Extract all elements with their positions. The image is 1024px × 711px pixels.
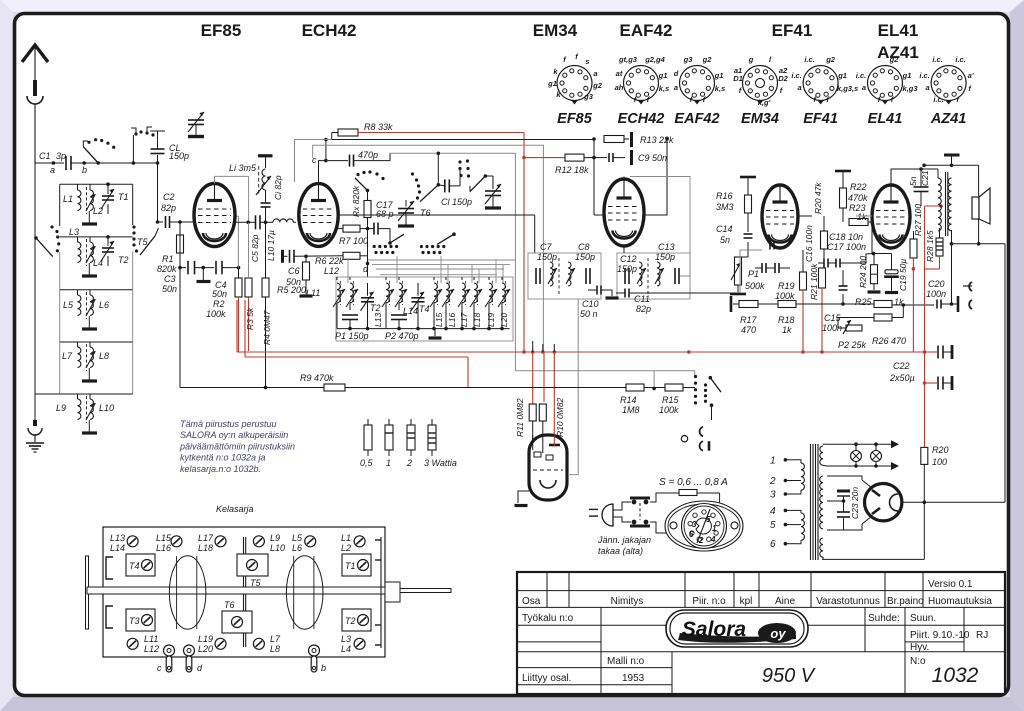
B+ node wire	[902, 244, 1005, 504]
svg-text:150p: 150p	[537, 252, 557, 262]
capacitor C18 C17	[818, 232, 866, 268]
capacitor C9 50n	[592, 139, 667, 215]
voltage selector socket	[665, 501, 743, 551]
trimmer box T4	[126, 554, 155, 576]
svg-text:C10: C10	[582, 299, 599, 309]
trimmer box T1	[342, 554, 371, 576]
label EM34	[533, 21, 578, 40]
svg-text:P1: P1	[748, 269, 759, 279]
svg-text:c: c	[157, 663, 162, 673]
svg-text:i.c.: i.c.	[791, 71, 801, 80]
capacitor C6 50n	[283, 250, 344, 287]
svg-text:Malli n:o: Malli n:o	[607, 656, 645, 667]
svg-text:D2: D2	[778, 74, 788, 83]
svg-text:EF41: EF41	[803, 111, 838, 127]
oscillator ground	[429, 329, 442, 338]
svg-text:a: a	[50, 165, 55, 175]
svg-text:C5 82p: C5 82p	[250, 234, 260, 262]
svg-text:Kelasarja: Kelasarja	[216, 504, 254, 514]
svg-text:5n: 5n	[720, 235, 730, 245]
svg-text:R11 0M82: R11 0M82	[515, 398, 525, 437]
svg-text:L10: L10	[99, 403, 114, 413]
transformer primary taps	[769, 455, 795, 550]
svg-text:Cl 150p: Cl 150p	[441, 197, 472, 207]
svg-text:L20: L20	[499, 313, 509, 327]
svg-text:g2: g2	[702, 55, 713, 64]
svg-text:g1: g1	[714, 71, 724, 80]
tube socket ECH42	[615, 55, 670, 127]
screw L1 L2	[341, 533, 365, 553]
svg-text:L7: L7	[270, 634, 281, 644]
svg-text:R3 5k: R3 5k	[245, 307, 255, 330]
resistor R2 100k	[235, 268, 242, 352]
coil L5 L6	[60, 290, 133, 342]
capacitor C17 68p	[366, 200, 394, 243]
svg-text:0,5: 0,5	[360, 458, 374, 468]
trimmer box T5	[237, 554, 268, 588]
svg-text:L11: L11	[306, 288, 320, 298]
svg-text:g1: g1	[547, 79, 557, 88]
inductor L10 17u	[234, 219, 296, 261]
svg-text:L10: L10	[270, 543, 285, 553]
svg-text:3 Wattia: 3 Wattia	[424, 458, 457, 468]
svg-text:R5 200: R5 200	[277, 285, 306, 295]
switch Cl contacts	[458, 159, 487, 191]
svg-text:Osa: Osa	[522, 596, 541, 607]
svg-text:a: a	[674, 83, 678, 92]
svg-text:L5: L5	[63, 300, 74, 310]
svg-text:gt,g3: gt,g3	[618, 55, 638, 64]
svg-text:R6 22k: R6 22k	[315, 256, 344, 266]
svg-text:Huomautuksia: Huomautuksia	[928, 596, 992, 607]
svg-text:kelasarja.n:o 1032b.: kelasarja.n:o 1032b.	[180, 464, 261, 474]
svg-text:T2: T2	[118, 255, 129, 265]
switch left contacts	[34, 225, 60, 256]
wire H grey 153	[390, 152, 695, 391]
potentiometer P1 500k	[730, 257, 765, 294]
svg-text:R20: R20	[932, 445, 949, 455]
svg-text:5: 5	[706, 515, 711, 524]
wire H bus 139	[295, 140, 595, 183]
resistor R12 18k	[522, 154, 594, 175]
resistor R13 22k	[592, 132, 674, 147]
transformer secondary heater	[820, 444, 827, 466]
screw L17 L18	[198, 533, 226, 553]
svg-text:L2: L2	[93, 206, 103, 216]
svg-text:C14: C14	[716, 224, 733, 234]
svg-text:T5: T5	[250, 578, 261, 588]
svg-text:1M8: 1M8	[622, 405, 640, 415]
svg-text:5n: 5n	[908, 176, 918, 186]
switch S5	[694, 375, 721, 420]
capacitor C16 100n wires	[770, 216, 814, 262]
svg-text:R18: R18	[778, 315, 795, 325]
capacitor C23 20n	[827, 487, 860, 530]
svg-text:g2,g4: g2,g4	[644, 55, 665, 64]
svg-text:150p: 150p	[169, 151, 189, 161]
svg-text:SALORA oy:n alkuperäisiin: SALORA oy:n alkuperäisiin	[180, 430, 288, 440]
screw L11 L12	[127, 634, 159, 654]
terminal d	[184, 645, 204, 673]
svg-text:470: 470	[741, 325, 756, 335]
EM34 ground	[515, 491, 530, 506]
svg-text:L19: L19	[198, 634, 213, 644]
svg-text:2x50µ: 2x50µ	[889, 373, 915, 383]
potentiometer P2 25k	[838, 318, 874, 351]
svg-text:3p: 3p	[56, 151, 66, 161]
svg-text:R2: R2	[213, 299, 225, 309]
resistor R1 820k	[157, 222, 184, 274]
svg-text:T6: T6	[420, 208, 431, 218]
main earth ground	[26, 420, 44, 452]
capacitor Cl 150p	[438, 179, 472, 207]
label AZ41	[877, 43, 919, 62]
wire EL41 grid	[848, 216, 874, 263]
svg-text:g3: g3	[683, 55, 694, 64]
svg-text:L15: L15	[434, 313, 444, 327]
tube V2 ECH42	[299, 184, 338, 247]
svg-text:820k: 820k	[157, 264, 177, 274]
svg-text:g3: g3	[583, 92, 594, 101]
label T5	[137, 237, 148, 247]
svg-text:100k: 100k	[659, 405, 679, 415]
capacitor C14 5n	[744, 234, 753, 257]
svg-text:d: d	[674, 69, 679, 78]
title texts bottom	[522, 656, 926, 684]
svg-text:i.c.: i.c.	[932, 55, 942, 64]
svg-text:oy: oy	[770, 626, 786, 641]
svg-text:4: 4	[710, 535, 716, 544]
transformer primary coils	[795, 460, 804, 544]
resistor R23 1k	[849, 203, 872, 226]
svg-text:Aine: Aine	[775, 596, 795, 607]
capacitor C15 100n	[822, 270, 848, 333]
transformer bottom winding	[820, 538, 823, 559]
switch lower blades	[373, 232, 456, 254]
resistor R4 0M47	[262, 222, 272, 389]
svg-text:C22: C22	[893, 361, 910, 371]
red bus risers	[237, 300, 926, 388]
svg-text:470p: 470p	[358, 150, 378, 160]
tube socket AZ41	[919, 55, 973, 127]
screw L19 L20	[198, 634, 226, 654]
svg-text:100n: 100n	[926, 289, 946, 299]
resistor R16 3M3	[716, 177, 756, 245]
svg-text:L19: L19	[486, 313, 496, 327]
svg-text:Salora: Salora	[682, 618, 747, 641]
svg-text:EL41: EL41	[868, 111, 903, 127]
screw L7 L8	[253, 634, 281, 654]
svg-text:R10 0M82: R10 0M82	[555, 398, 565, 437]
svg-text:Suun.: Suun.	[910, 613, 936, 624]
node d	[363, 262, 369, 277]
svg-text:Jänn. jakajan: Jänn. jakajan	[597, 535, 651, 545]
svg-text:C7: C7	[540, 242, 552, 252]
svg-text:k,s: k,s	[715, 84, 725, 93]
EM34 top leads	[533, 435, 555, 453]
resistor R21 100k	[809, 263, 826, 352]
svg-text:150p: 150p	[655, 252, 675, 262]
svg-text:R21 100k: R21 100k	[809, 263, 819, 300]
svg-text:i.c.: i.c.	[804, 55, 814, 64]
wire bundle EM34	[533, 341, 555, 446]
coil L9 L10 ant	[56, 394, 133, 433]
svg-text:L9: L9	[270, 533, 280, 543]
svg-text:g: g	[748, 55, 754, 64]
resistor R14 1M8	[620, 384, 644, 415]
resistor R18 1k	[758, 301, 874, 336]
tube V5 EL41	[872, 185, 910, 248]
heater return wire	[822, 502, 924, 559]
trimmer box T6	[222, 600, 252, 633]
svg-text:L13: L13	[110, 533, 125, 543]
coil L11 T2	[306, 277, 381, 341]
svg-text:1: 1	[386, 458, 391, 468]
svg-text:6: 6	[770, 539, 776, 550]
svg-text:i.c.: i.c.	[933, 95, 943, 104]
svg-text:C20: C20	[928, 279, 945, 289]
capacitor 470p	[328, 150, 390, 167]
label EL41	[878, 21, 919, 40]
svg-text:470k: 470k	[848, 193, 868, 203]
resistor R17 470	[731, 296, 758, 335]
svg-text:T1: T1	[345, 561, 356, 571]
svg-text:3: 3	[770, 490, 776, 501]
svg-text:takaa (alta): takaa (alta)	[598, 546, 643, 556]
svg-text:kytkentä n:o 1032a ja: kytkentä n:o 1032a ja	[180, 453, 266, 463]
svg-text:T4: T4	[129, 561, 140, 571]
svg-text:L17: L17	[198, 533, 214, 543]
resistor R20 100	[921, 445, 949, 502]
svg-text:R12 18k: R12 18k	[555, 165, 589, 175]
svg-text:Piirt. 9.10.-10: Piirt. 9.10.-10	[910, 630, 970, 641]
svg-text:L6: L6	[292, 543, 302, 553]
svg-text:L3: L3	[69, 227, 79, 237]
tube V1 EF85	[194, 184, 235, 247]
svg-text:R19: R19	[778, 281, 795, 291]
svg-text:50n: 50n	[212, 289, 227, 299]
svg-text:Liittyy osal.: Liittyy osal.	[522, 673, 571, 684]
svg-text:R20 47k: R20 47k	[813, 182, 823, 214]
screw L15 L16	[156, 533, 182, 553]
svg-text:500k: 500k	[745, 281, 765, 291]
switch wires grey	[348, 256, 516, 283]
svg-text:T4: T4	[419, 304, 430, 314]
coil L3 L4 T2	[60, 227, 133, 290]
svg-text:L4: L4	[341, 644, 351, 654]
svg-text:T6: T6	[224, 600, 235, 610]
svg-text:k,g3,s: k,g3,s	[837, 84, 858, 93]
wire V2 plate to IF	[338, 215, 535, 253]
svg-text:R1: R1	[162, 254, 174, 264]
resistor R15 100k	[644, 384, 695, 415]
tube V3 EAF42	[604, 177, 644, 247]
svg-text:Työkalu n:o: Työkalu n:o	[522, 613, 574, 624]
svg-text:C1: C1	[39, 151, 51, 161]
screw L13 L14	[110, 533, 138, 553]
svg-text:EF85: EF85	[557, 111, 593, 127]
svg-text:a: a	[926, 83, 930, 92]
svg-text:R25: R25	[855, 297, 873, 307]
resistor R24 200	[858, 252, 892, 292]
Salora oy logo	[666, 610, 808, 647]
oscillator box	[336, 277, 513, 341]
svg-text:AZ41: AZ41	[930, 111, 966, 127]
wire EL41 plate top	[891, 169, 938, 185]
svg-text:R15: R15	[662, 395, 680, 405]
svg-text:EAF42: EAF42	[620, 21, 673, 40]
svg-text:L3: L3	[341, 634, 351, 644]
resistor R20 47k	[813, 182, 828, 268]
svg-text:g2: g2	[592, 81, 603, 90]
switch T6 contacts	[411, 172, 438, 201]
screw L9 L10	[253, 533, 285, 553]
wire EAF42 plate	[594, 137, 669, 253]
svg-text:C2: C2	[163, 192, 175, 202]
coil L1 L2 T1	[60, 182, 133, 226]
capacitor C20 100n	[926, 279, 958, 309]
svg-text:L16: L16	[447, 313, 457, 327]
svg-text:RJ: RJ	[976, 630, 988, 641]
svg-text:C13: C13	[658, 242, 675, 252]
svg-text:i.c.: i.c.	[919, 71, 929, 80]
trimmer box T2	[342, 609, 371, 631]
kelasarja brackets	[106, 537, 381, 648]
svg-text:L1: L1	[341, 533, 351, 543]
svg-text:s: s	[585, 57, 589, 66]
resistor R27 100	[910, 204, 925, 352]
svg-text:R4 0M47: R4 0M47	[262, 310, 272, 345]
tube socket EF85	[547, 52, 603, 127]
svg-text:C9 50n: C9 50n	[638, 153, 667, 163]
svg-text:R13 22k: R13 22k	[640, 135, 674, 145]
svg-text:R26 470: R26 470	[872, 336, 906, 346]
jack output	[958, 282, 972, 312]
tube socket EAF42	[674, 55, 726, 127]
svg-text:a: a	[862, 83, 866, 92]
svg-text:Tämä piirustus perustuu: Tämä piirustus perustuu	[180, 419, 277, 429]
svg-text:R7 100: R7 100	[339, 236, 368, 246]
label EF41	[772, 21, 813, 40]
svg-text:Versio 0.1: Versio 0.1	[928, 579, 973, 590]
drawing number 1032	[932, 664, 979, 687]
svg-text:g1: g1	[837, 71, 847, 80]
svg-text:EM34: EM34	[741, 111, 779, 127]
wire Cl blade	[460, 169, 470, 192]
svg-text:EF41: EF41	[772, 21, 813, 40]
ground under coils	[35, 163, 60, 420]
svg-text:ECH42: ECH42	[618, 111, 665, 127]
svg-text:k,g': k,g'	[758, 98, 771, 107]
svg-text:Hyv.: Hyv.	[910, 642, 929, 653]
svg-text:a': a'	[968, 71, 974, 80]
svg-text:R27 100: R27 100	[913, 204, 923, 236]
svg-text:100k: 100k	[775, 291, 795, 301]
resistor R10 0M82	[539, 398, 565, 445]
svg-text:Varastotunnus: Varastotunnus	[816, 596, 880, 607]
svg-text:Piir. n:o: Piir. n:o	[692, 596, 726, 607]
resistor R25 1k	[855, 297, 934, 308]
svg-text:T2: T2	[370, 303, 381, 313]
svg-text:k,s: k,s	[659, 84, 669, 93]
svg-text:Br.paino: Br.paino	[887, 596, 924, 607]
coil L17 L18	[458, 277, 482, 329]
svg-text:2: 2	[698, 536, 704, 545]
title block table	[517, 572, 1005, 694]
svg-text:C16 100n: C16 100n	[804, 225, 814, 262]
caps near cathode	[755, 263, 790, 273]
label EF85	[201, 21, 242, 40]
red bus main	[237, 351, 931, 353]
svg-text:150p: 150p	[575, 252, 595, 262]
svg-text:50 n: 50 n	[580, 309, 598, 319]
resistor R6 22k	[315, 252, 368, 266]
svg-text:L17: L17	[459, 313, 469, 327]
svg-text:i.c.: i.c.	[955, 55, 965, 64]
svg-text:L14: L14	[110, 543, 125, 553]
capacitor C22 2x50u	[889, 345, 952, 390]
svg-text:150p: 150p	[617, 264, 637, 274]
svg-text:g1: g1	[902, 71, 912, 80]
tube V4 EF41	[762, 185, 798, 248]
svg-text:R8 33k: R8 33k	[364, 122, 393, 132]
svg-text:68 p: 68 p	[376, 209, 394, 219]
svg-text:a: a	[798, 83, 802, 92]
svg-text:L9: L9	[56, 403, 66, 413]
svg-text:C23 20n: C23 20n	[850, 487, 860, 519]
jack PU	[681, 427, 709, 451]
svg-text:g2: g2	[825, 55, 836, 64]
svg-text:Ci 82p: Ci 82p	[273, 175, 283, 200]
filament circuit with lamps	[827, 440, 899, 470]
kelasarja shaft	[86, 556, 452, 629]
switch osc contacts	[355, 170, 385, 192]
svg-text:k,g3: k,g3	[902, 84, 918, 93]
svg-text:3M3: 3M3	[716, 202, 734, 212]
svg-text:1: 1	[712, 524, 717, 533]
svg-text:EF85: EF85	[201, 21, 242, 40]
svg-text:L20: L20	[198, 644, 213, 654]
svg-text:L12: L12	[324, 266, 339, 276]
label L12	[324, 266, 339, 276]
transformer core	[811, 444, 819, 560]
svg-text:L5: L5	[292, 533, 303, 543]
svg-text:R14: R14	[620, 395, 637, 405]
wire EAF42 right	[630, 177, 690, 277]
svg-text:D1: D1	[733, 74, 743, 83]
svg-text:6: 6	[689, 530, 694, 539]
svg-text:L6: L6	[99, 300, 109, 310]
svg-text:1032: 1032	[932, 664, 979, 687]
trimmer CT5	[188, 112, 204, 137]
capacitor C5 82p	[250, 215, 260, 262]
svg-text:b: b	[82, 165, 87, 175]
svg-text:g1: g1	[658, 71, 668, 80]
svg-text:P1 150p: P1 150p	[335, 331, 369, 341]
coil L13 L14 T4	[373, 277, 430, 341]
svg-text:L11: L11	[144, 634, 158, 644]
wire H grey 146	[313, 145, 544, 352]
resistor R7 100	[338, 225, 368, 246]
svg-text:L1: L1	[63, 194, 73, 204]
wire red output tap	[925, 204, 943, 447]
svg-text:82p: 82p	[161, 203, 176, 213]
svg-text:EAF42: EAF42	[674, 111, 719, 127]
svg-text:4: 4	[770, 506, 776, 517]
wire EF41 grid	[640, 250, 762, 293]
wave switch top	[83, 127, 154, 163]
inductor Li 3m5	[229, 156, 273, 195]
